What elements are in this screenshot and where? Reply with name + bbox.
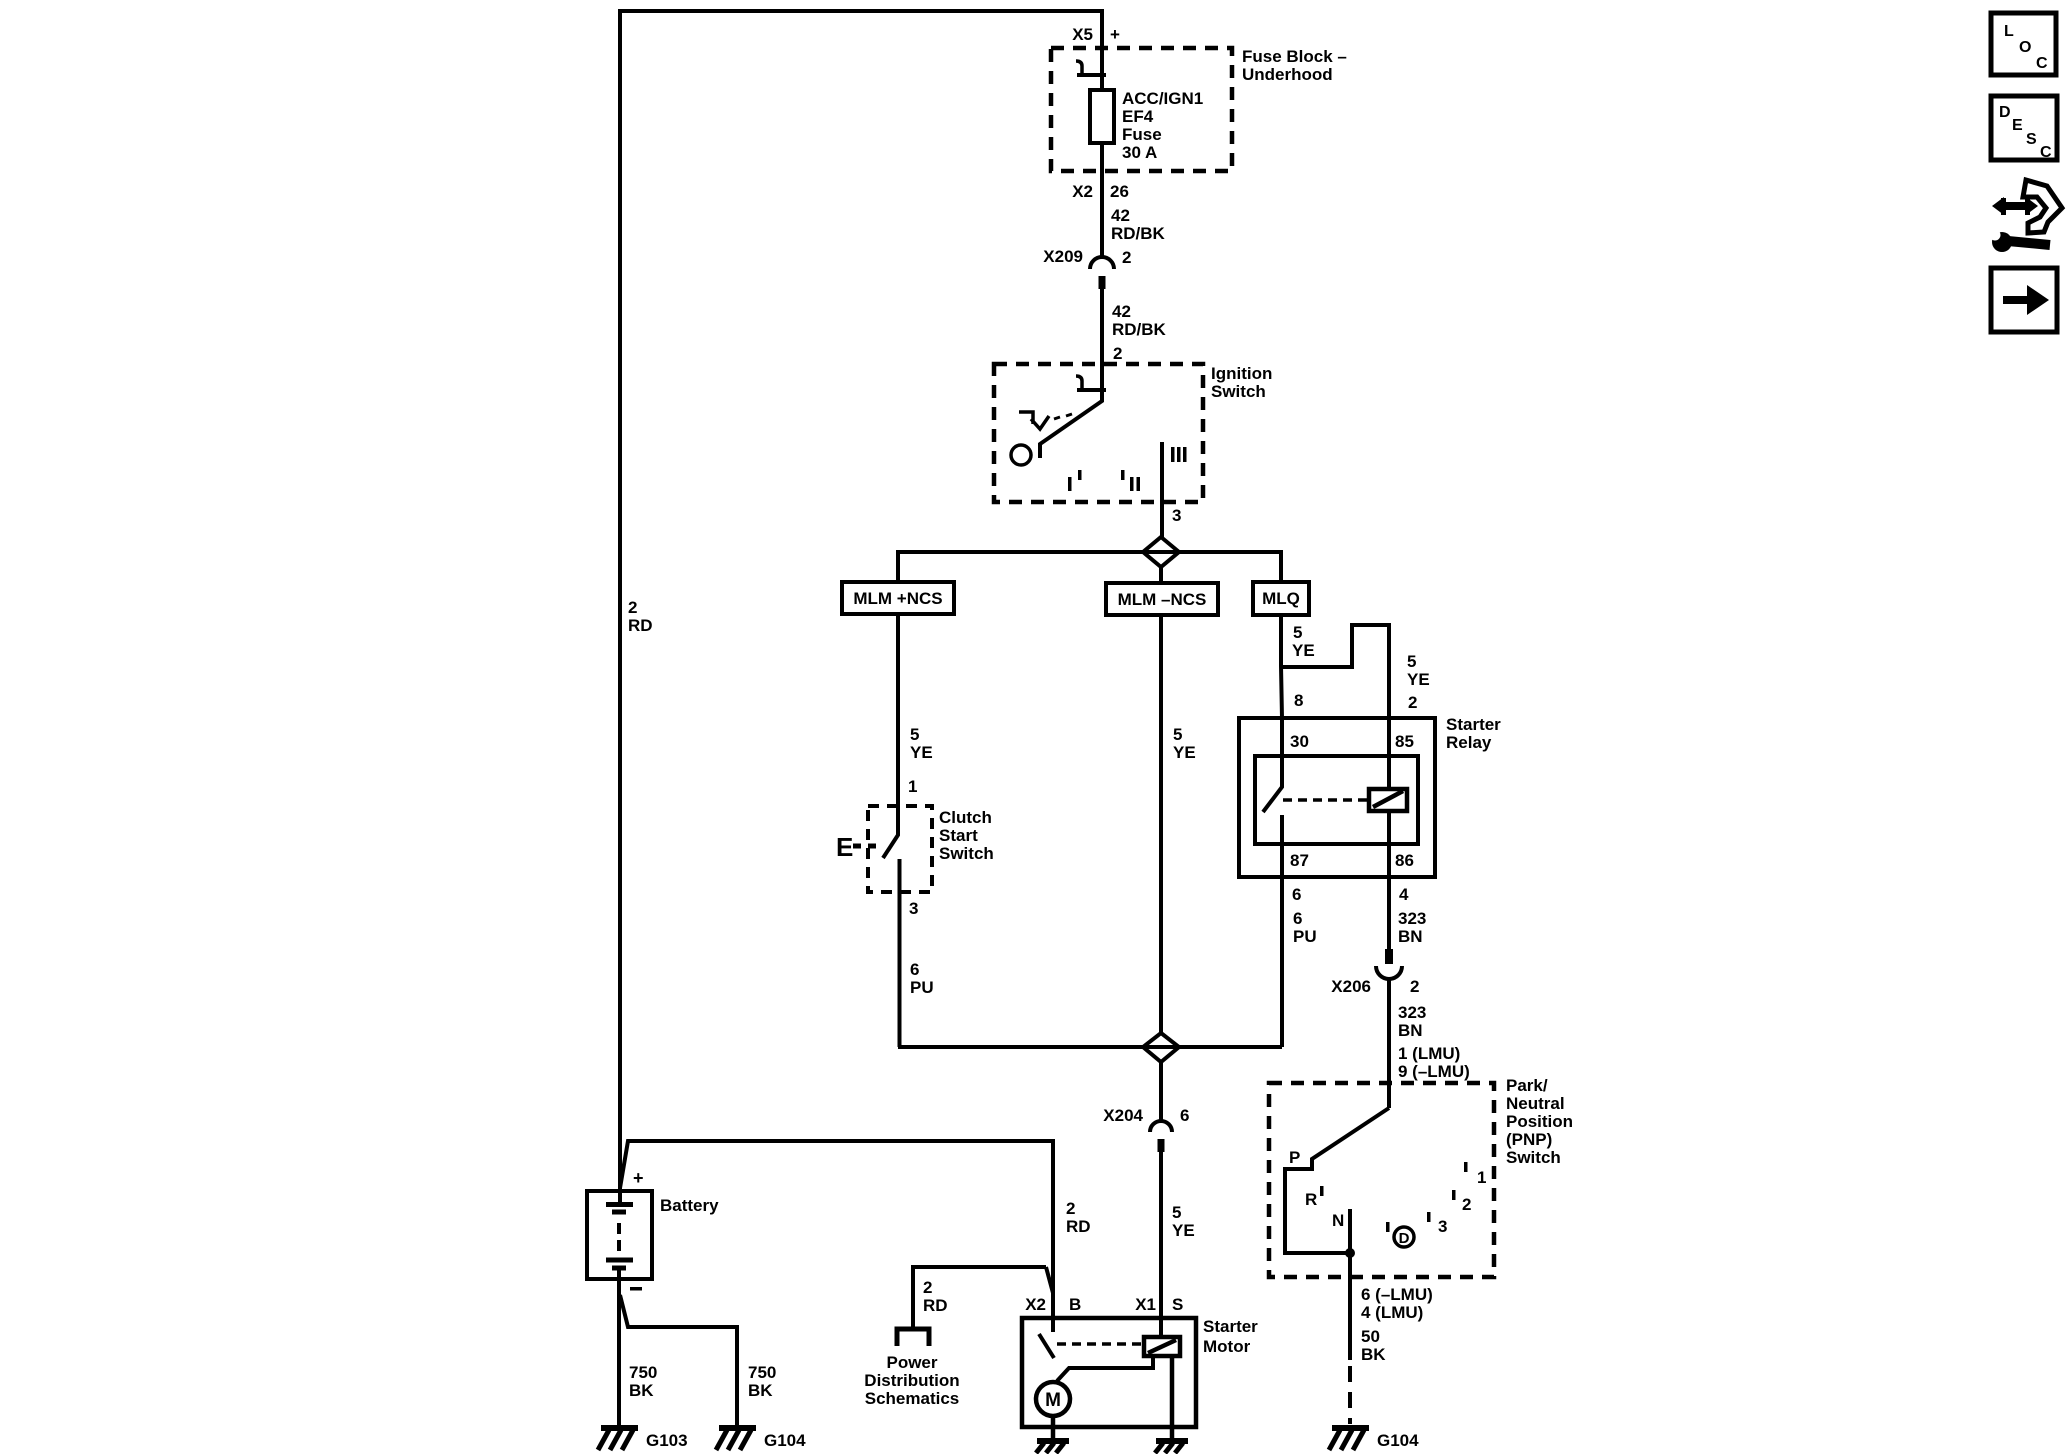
ground G103 (598, 1428, 638, 1450)
svg-text:Switch: Switch (939, 844, 994, 863)
svg-text:(PNP): (PNP) (1506, 1130, 1552, 1149)
wire: fused feed drop from top to fuse (1100, 9, 1104, 92)
icon next arrow box (1991, 268, 2057, 332)
fuse ACC/IGN1 EF4 30A (1090, 90, 1114, 143)
label circuit 5 YE pin 8 (relay 30) (1292, 623, 1315, 710)
label circuit 5 YE pin 2 (relay 85) (1407, 652, 1430, 712)
svg-text:MLQ: MLQ (1262, 589, 1300, 608)
relay actuation dashed link (1283, 798, 1369, 802)
svg-text:C: C (2040, 144, 2052, 161)
ignition switch dashed box (994, 364, 1203, 502)
svg-text:YE: YE (1407, 670, 1430, 689)
svg-text:+: + (1110, 25, 1120, 44)
svg-text:6: 6 (1293, 909, 1302, 928)
starter solenoid contact blade (1039, 1334, 1054, 1358)
battery cell plates (606, 1191, 633, 1279)
fuse block underhood dashed box (1051, 48, 1232, 171)
wire: crank signal bus lower (898, 1045, 1282, 1049)
starter relay outer box (1239, 718, 1435, 877)
svg-text:Starter: Starter (1203, 1317, 1258, 1336)
PNP contact N feed (1348, 1209, 1352, 1360)
svg-text:6: 6 (910, 960, 919, 979)
icon DESC box (1991, 96, 2057, 161)
svg-text:RD/BK: RD/BK (1112, 320, 1167, 339)
label circuit 323 BN 1 (LMU) 9 (-LMU) (1398, 1003, 1470, 1081)
label Battery (660, 1196, 719, 1215)
label pin 6 circuit 6 PU (relay 87) (1292, 885, 1317, 946)
net tag MLM +NCS (842, 582, 954, 614)
svg-text:Neutral: Neutral (1506, 1094, 1565, 1113)
svg-text:G104: G104 (1377, 1431, 1419, 1450)
connector terminal symbol (fuse block) (1076, 61, 1106, 75)
ground G104 (PNP) (1329, 1428, 1369, 1450)
svg-text:2: 2 (1113, 344, 1122, 363)
svg-text:750: 750 (748, 1363, 776, 1382)
wire: motor case ground lead (1051, 1416, 1056, 1440)
svg-text:G103: G103 (646, 1431, 688, 1450)
starter relay inner box (1255, 756, 1418, 844)
svg-text:Fuse Block –: Fuse Block – (1242, 47, 1347, 66)
svg-text:26: 26 (1110, 182, 1129, 201)
svg-text:+: + (633, 1168, 644, 1188)
svg-text:4 (LMU): 4 (LMU) (1361, 1303, 1423, 1322)
svg-text:Starter: Starter (1446, 715, 1501, 734)
svg-text:Switch: Switch (1211, 382, 1266, 401)
label fuse ACC/IGN1 EF4 Fuse 30 A (1122, 89, 1203, 162)
label Starter Motor (1203, 1317, 1258, 1356)
net tag MLM -NCS (1106, 583, 1218, 615)
label circuits 6 (-LMU) 4 (LMU) 50 BK (1361, 1285, 1433, 1364)
svg-text:Position: Position (1506, 1112, 1573, 1131)
svg-text:Distribution: Distribution (864, 1371, 959, 1390)
svg-text:5: 5 (1172, 1203, 1181, 1222)
PNP position marks 1 2 3 D (1386, 1162, 1486, 1236)
connector terminal symbol (ignition switch) (1076, 376, 1106, 390)
svg-text:5: 5 (910, 725, 919, 744)
label G104 (PNP) (1377, 1431, 1419, 1450)
wire: dashed ground lead 50 BK (1348, 1366, 1352, 1424)
battery positive lead (618, 1186, 622, 1203)
svg-text:D: D (1399, 1230, 1410, 1247)
svg-text:PU: PU (1293, 927, 1317, 946)
svg-text:6: 6 (1180, 1106, 1189, 1125)
junction diamond lower (1143, 1033, 1179, 1062)
svg-text:Motor: Motor (1203, 1337, 1251, 1356)
label circuit 750 BK (left) (629, 1363, 657, 1400)
svg-text:3: 3 (909, 899, 918, 918)
ignition switch blade (1040, 390, 1102, 458)
svg-text:YE: YE (1292, 641, 1315, 660)
svg-text:P: P (1289, 1148, 1300, 1167)
svg-text:RD/BK: RD/BK (1111, 224, 1166, 243)
clutch switch lower contact (898, 859, 902, 1047)
node X1 pin S (starter) (1135, 1295, 1183, 1314)
svg-text:2: 2 (1066, 1199, 1075, 1218)
wire: battery positive feed (top horizontal + left vertical) (620, 11, 1102, 1191)
svg-text:1: 1 (908, 777, 917, 796)
wire: ignition START output pin 3 (1160, 442, 1164, 537)
svg-text:Park/: Park/ (1506, 1076, 1548, 1095)
svg-text:Fuse: Fuse (1122, 125, 1162, 144)
svg-text:E: E (836, 832, 853, 862)
svg-text:G104: G104 (764, 1431, 806, 1450)
icon crossroads double arrow (1992, 197, 2038, 215)
icon crossroads arrow outline (2023, 180, 2062, 233)
svg-text:O: O (2019, 39, 2031, 56)
svg-text:R: R (1305, 1190, 1317, 1209)
svg-text:PU: PU (910, 978, 934, 997)
wire: branch to MLM +NCS (896, 550, 900, 582)
svg-text:MLM +NCS: MLM +NCS (853, 589, 942, 608)
wire: relay 87 output 6 PU to bus (1280, 877, 1284, 1047)
label connector X204 pin 6 (1103, 1106, 1189, 1125)
svg-text:L: L (2004, 23, 2014, 40)
label circuit 5 YE (to starter S) (1172, 1203, 1195, 1240)
svg-text:750: 750 (629, 1363, 657, 1382)
svg-text:Battery: Battery (660, 1196, 719, 1215)
relay contact: pin 87 stub (1280, 815, 1284, 877)
svg-text:BN: BN (1398, 927, 1423, 946)
wire: MLQ jumper to relay coil (1281, 625, 1389, 718)
relay pin labels 30 85 87 86 (1290, 732, 1414, 870)
wire: MLM -NCS branch 5 YE (1159, 615, 1163, 1033)
label pin 3 (1172, 506, 1181, 525)
node X2 pin B (starter) (1025, 1295, 1081, 1314)
svg-text:1 (LMU): 1 (LMU) (1398, 1044, 1460, 1063)
ground G104 (battery) (716, 1428, 756, 1450)
ignition position III mark (1171, 447, 1187, 462)
net tag MLQ (1253, 582, 1309, 615)
wire: branch to power distribution (913, 1267, 1053, 1327)
ignition position I mark (1068, 470, 1082, 491)
svg-text:B: B (1069, 1295, 1081, 1314)
svg-text:2: 2 (923, 1278, 932, 1297)
svg-text:9 (–LMU): 9 (–LMU) (1398, 1062, 1470, 1081)
wire: branch to MLM -NCS (1159, 567, 1163, 583)
svg-text:Start: Start (939, 826, 978, 845)
svg-text:6 (–LMU): 6 (–LMU) (1361, 1285, 1433, 1304)
clutch switch blade (883, 806, 898, 858)
svg-text:S: S (1172, 1295, 1183, 1314)
svg-text:M: M (1045, 1390, 1061, 1411)
svg-text:85: 85 (1395, 732, 1414, 751)
label circuit 42 RD/BK pin 2 (1112, 302, 1167, 363)
connector X204 (1150, 1062, 1172, 1318)
svg-text:5: 5 (1173, 725, 1182, 744)
svg-text:BK: BK (748, 1381, 773, 1400)
battery box (587, 1191, 652, 1279)
relay coil (1369, 718, 1407, 877)
svg-text:4: 4 (1399, 885, 1409, 904)
svg-text:323: 323 (1398, 909, 1426, 928)
ignition switch pivot (1011, 445, 1031, 465)
label circuit 750 BK (right) (748, 1363, 776, 1400)
wire: battery negative jog to G104 (620, 1295, 737, 1425)
label battery + (633, 1168, 644, 1188)
svg-text:Underhood: Underhood (1242, 65, 1333, 84)
wire: fuse output 42 RD/BK (1100, 143, 1104, 259)
svg-text:42: 42 (1111, 206, 1130, 225)
starter internal link to motor (1057, 1356, 1153, 1381)
svg-text:Clutch: Clutch (939, 808, 992, 827)
wire: battery negative to G103 (617, 1279, 621, 1425)
svg-text:X209: X209 (1043, 247, 1083, 266)
svg-text:Ignition: Ignition (1211, 364, 1272, 383)
svg-text:MLM –NCS: MLM –NCS (1118, 590, 1207, 609)
svg-text:N: N (1332, 1211, 1344, 1230)
junction diamond upper (1143, 537, 1179, 567)
label pin 3 and circuit 6 PU (clutch out) (909, 899, 934, 997)
svg-text:X5: X5 (1072, 25, 1093, 44)
label Power Distribution Schematics (864, 1353, 959, 1408)
label connector X209 pin 2 (1043, 247, 1131, 267)
ground (starter motor) (1036, 1441, 1069, 1453)
label Fuse Block - Underhood (1242, 47, 1347, 84)
svg-text:2: 2 (1462, 1195, 1471, 1214)
svg-text:C: C (2036, 55, 2048, 72)
svg-text:YE: YE (1173, 743, 1196, 762)
svg-text:YE: YE (1172, 1221, 1195, 1240)
svg-text:X1: X1 (1135, 1295, 1156, 1314)
svg-text:323: 323 (1398, 1003, 1426, 1022)
label circuit 2 RD (starter feed) (1066, 1199, 1091, 1236)
svg-text:1: 1 (1477, 1168, 1486, 1187)
label P R N contacts (1289, 1148, 1344, 1230)
wire: battery feed jog to starter (620, 1141, 1053, 1293)
svg-text:30: 30 (1290, 732, 1309, 751)
connector X206 (1376, 949, 1402, 1108)
svg-text:86: 86 (1395, 851, 1414, 870)
icon wrench (1990, 230, 2051, 253)
off-page connector (power distribution) (897, 1329, 929, 1346)
svg-text:BN: BN (1398, 1021, 1423, 1040)
svg-text:87: 87 (1290, 851, 1309, 870)
svg-text:E: E (2012, 117, 2023, 134)
ignition key symbol (1019, 412, 1072, 429)
wire: crank signal bus upper (898, 550, 1281, 554)
clutch start switch dashed box (868, 806, 932, 892)
starter solenoid dashed link (1057, 1342, 1144, 1346)
svg-text:EF4: EF4 (1122, 107, 1154, 126)
wire: branch to MLQ (1279, 550, 1283, 582)
node X5 (1072, 25, 1120, 44)
svg-text:RD: RD (628, 616, 653, 635)
label battery - (630, 1287, 642, 1291)
svg-text:50: 50 (1361, 1327, 1380, 1346)
svg-text:3: 3 (1172, 506, 1181, 525)
svg-text:3: 3 (1438, 1217, 1447, 1236)
label circuit 5 YE (middle branch) (1173, 725, 1196, 762)
label Ignition Switch (1211, 364, 1272, 401)
svg-text:Switch: Switch (1506, 1148, 1561, 1167)
svg-text:X2: X2 (1072, 182, 1093, 201)
PNP junction dot (1345, 1248, 1355, 1258)
svg-text:ACC/IGN1: ACC/IGN1 (1122, 89, 1203, 108)
starter solenoid coil (1144, 1151, 1180, 1356)
label Starter Relay (1446, 715, 1501, 752)
label Clutch Start Switch (939, 808, 994, 863)
ground (starter solenoid) (1155, 1441, 1188, 1453)
svg-text:BK: BK (629, 1381, 654, 1400)
wire: MLQ branch 5 YE (1281, 615, 1282, 718)
svg-text:RD: RD (1066, 1217, 1091, 1236)
starter motor box (1022, 1318, 1196, 1427)
svg-text:2: 2 (628, 598, 637, 617)
label connector X206 pin 2 (1331, 977, 1419, 996)
svg-text:5: 5 (1293, 623, 1302, 642)
svg-text:X206: X206 (1331, 977, 1371, 996)
icon LOC box (1991, 13, 2056, 75)
svg-text:2: 2 (1410, 977, 1419, 996)
svg-text:8: 8 (1294, 691, 1303, 710)
park/neutral position switch dashed box (1269, 1083, 1494, 1277)
node E (clutch switch) (836, 832, 881, 862)
ignition position II mark (1121, 470, 1140, 491)
svg-text:RD: RD (923, 1296, 948, 1315)
PNP D position circle (1394, 1227, 1414, 1247)
wire: relay 86 output 323 BN (1387, 877, 1391, 949)
svg-text:6: 6 (1292, 885, 1301, 904)
label G104 (battery) (764, 1431, 806, 1450)
svg-text:2: 2 (1122, 248, 1131, 267)
label G103 (646, 1431, 688, 1450)
relay contact: pin 30 feed (1263, 718, 1282, 812)
svg-text:Schematics: Schematics (865, 1389, 960, 1408)
svg-text:30 A: 30 A (1122, 143, 1157, 162)
svg-text:D: D (1999, 104, 2011, 121)
connector X209 (1090, 257, 1114, 289)
svg-text:Relay: Relay (1446, 733, 1492, 752)
svg-text:YE: YE (910, 743, 933, 762)
starter motor M (1036, 1382, 1070, 1416)
svg-text:2: 2 (1408, 693, 1417, 712)
label Park/Neutral Position (PNP) Switch (1506, 1076, 1573, 1167)
svg-text:5: 5 (1407, 652, 1416, 671)
starter B terminal stub (1051, 1293, 1055, 1332)
svg-text:BK: BK (1361, 1345, 1386, 1364)
svg-text:X204: X204 (1103, 1106, 1143, 1125)
PNP switch wiper path P-R-N (1285, 1108, 1389, 1253)
svg-text:S: S (2026, 131, 2037, 148)
label pin 4 circuit 323 BN (relay 86) (1398, 885, 1426, 946)
wire: 42 RD/BK to ignition switch (1100, 289, 1104, 390)
label circuit 5 YE pin 1 (clutch) (908, 725, 933, 796)
svg-text:X2: X2 (1025, 1295, 1046, 1314)
wire: MLM +NCS branch 5 YE (896, 614, 900, 806)
node X2 pin 26 (1072, 182, 1165, 243)
svg-text:Power: Power (886, 1353, 937, 1372)
label circuit 2 RD (left wire) (628, 598, 653, 635)
svg-text:42: 42 (1112, 302, 1131, 321)
label circuit 2 RD (power distribution) (923, 1278, 948, 1315)
wire: solenoid ground lead (1170, 1356, 1175, 1440)
